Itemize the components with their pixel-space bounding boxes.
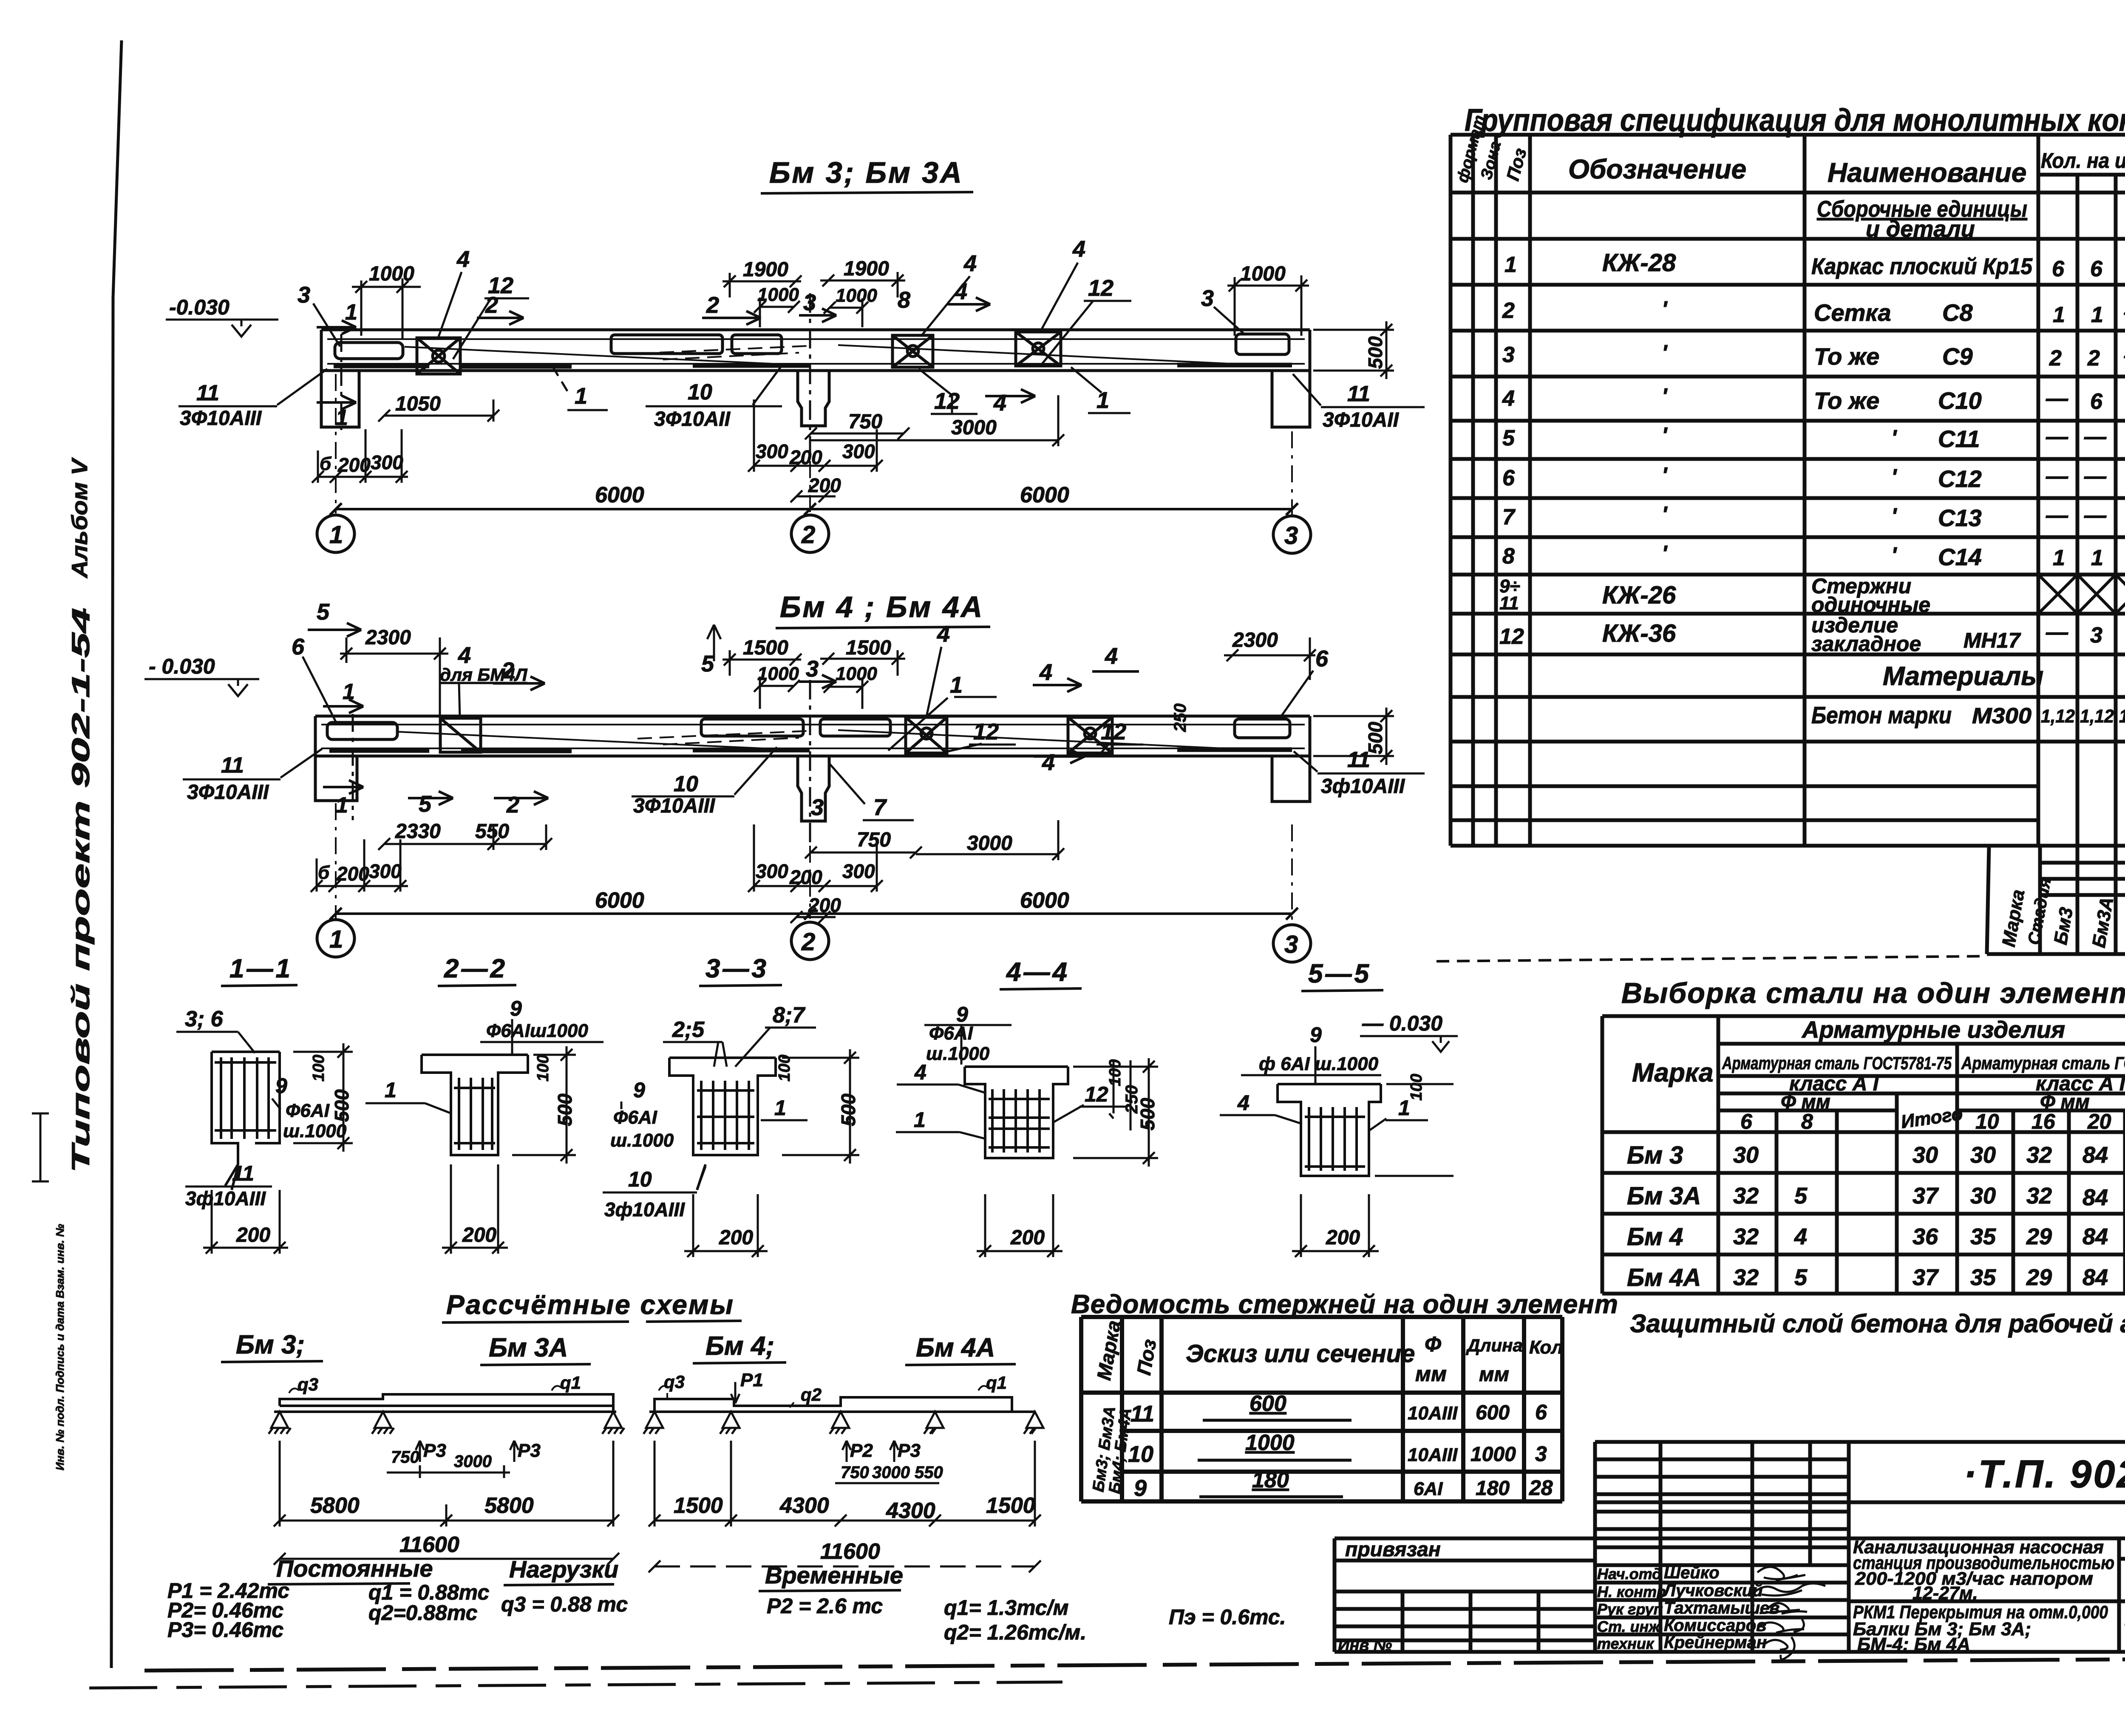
svg-text:q1= 1.3тс/м: q1= 1.3тс/м — [944, 1596, 1068, 1620]
svg-text:ш.1000: ш.1000 — [610, 1130, 674, 1151]
svg-text:ш.1000: ш.1000 — [926, 1043, 990, 1064]
svg-text:МН17: МН17 — [1963, 629, 2021, 652]
svg-text:6: 6 — [1740, 1110, 1753, 1133]
svg-text:6: 6 — [2090, 389, 2103, 414]
svg-text:500: 500 — [837, 1093, 859, 1126]
svg-text:550: 550 — [915, 1463, 943, 1482]
svg-text:—: — — [2046, 386, 2068, 411]
svg-text:С13: С13 — [1938, 504, 1982, 531]
svg-text:3000: 3000 — [951, 416, 997, 439]
svg-text:Арматурные изделия: Арматурные изделия — [1801, 1016, 2065, 1043]
svg-text:Марка: Марка — [1632, 1058, 1713, 1087]
svg-text:200: 200 — [808, 474, 841, 496]
svg-text:Зона: Зона — [1477, 139, 1504, 181]
svg-text:КЖ-36: КЖ-36 — [1602, 620, 1676, 647]
svg-text:Групповая спецификация для: Групповая спецификация для монолитных ко… — [1465, 102, 2125, 138]
svg-text:3; 6: 3; 6 — [185, 1007, 224, 1031]
svg-text:q2: q2 — [801, 1385, 822, 1405]
svg-text:9: 9 — [1310, 1023, 1322, 1047]
svg-text:4: 4 — [1105, 643, 1118, 669]
svg-text:б: б — [320, 453, 332, 474]
svg-text:32: 32 — [1733, 1183, 1759, 1209]
svg-text:2: 2 — [801, 928, 815, 956]
svg-text:4: 4 — [458, 643, 471, 668]
svg-text:q2=0.88тс: q2=0.88тс — [368, 1601, 478, 1625]
svg-text:1: 1 — [914, 1108, 926, 1132]
svg-text:Рассчётные схемы: Рассчётные схемы — [446, 1289, 734, 1320]
svg-text:500: 500 — [331, 1089, 353, 1122]
svg-text:P3: P3 — [898, 1440, 921, 1461]
svg-text:1: 1 — [336, 405, 348, 430]
svg-text:180: 180 — [1252, 1468, 1289, 1492]
svg-text:2330: 2330 — [395, 820, 441, 843]
svg-text:6: 6 — [1502, 466, 1515, 490]
svg-text:1: 1 — [1504, 252, 1517, 277]
svg-text:': ' — [1891, 543, 1897, 568]
svg-text:6000: 6000 — [1020, 483, 1069, 507]
svg-text:200: 200 — [719, 1226, 753, 1249]
svg-text:11: 11 — [196, 381, 219, 405]
svg-text:1500: 1500 — [846, 637, 891, 659]
svg-text:Крейнерман: Крейнерман — [1664, 1633, 1767, 1652]
svg-text:9: 9 — [1134, 1475, 1147, 1501]
svg-text:4: 4 — [937, 621, 950, 647]
svg-text:3Ф10АII: 3Ф10АII — [654, 408, 731, 430]
svg-text:4: 4 — [456, 246, 470, 272]
svg-text:Бм3А: Бм3А — [2088, 895, 2118, 949]
svg-text:Выборка стали на один элем: Выборка стали на один элемент, кг — [1621, 977, 2125, 1009]
svg-text:Бм 4А: Бм 4А — [1627, 1264, 1701, 1291]
svg-text:1900: 1900 — [844, 258, 889, 280]
svg-text:10: 10 — [688, 380, 712, 405]
svg-text:37: 37 — [1912, 1183, 1939, 1209]
svg-text:Бм 3; Бм 3А: Бм 3; Бм 3А — [769, 156, 963, 189]
svg-text:P3: P3 — [518, 1440, 541, 1461]
svg-text:': ' — [1891, 465, 1897, 490]
svg-text:С12: С12 — [1938, 465, 1982, 492]
svg-text:5: 5 — [1794, 1265, 1808, 1290]
svg-text:-0.030: -0.030 — [169, 295, 229, 319]
svg-text:Ф6АIш1000: Ф6АIш1000 — [486, 1020, 588, 1041]
svg-text:1: 1 — [2091, 546, 2103, 570]
svg-text:2: 2 — [1502, 298, 1515, 323]
svg-text:1: 1 — [2053, 546, 2065, 570]
svg-text:9: 9 — [633, 1078, 645, 1102]
svg-text:3: 3 — [1502, 343, 1515, 367]
svg-text:q3 = 0.88 тс: q3 = 0.88 тс — [501, 1592, 628, 1616]
svg-text:1: 1 — [575, 383, 587, 409]
svg-text:Ф6АI: Ф6АI — [286, 1100, 330, 1121]
svg-text:10АIII: 10АIII — [1408, 1444, 1458, 1465]
svg-text:1500: 1500 — [743, 637, 788, 659]
svg-text:БМ-4; Бм 4А: БМ-4; Бм 4А — [1857, 1634, 1970, 1655]
svg-text:Длина: Длина — [1466, 1335, 1523, 1355]
svg-text:q2= 1.26тс/м.: q2= 1.26тс/м. — [944, 1620, 1086, 1644]
svg-text:привязан: привязан — [1345, 1538, 1441, 1561]
svg-text:10: 10 — [674, 772, 698, 796]
svg-text:2—2: 2—2 — [444, 954, 507, 983]
svg-text:С14: С14 — [1938, 544, 1982, 570]
svg-text:—: — — [2046, 620, 2068, 645]
svg-text:30: 30 — [1733, 1142, 1759, 1168]
svg-text:Бм 4 ; Бм 4А: Бм 4 ; Бм 4А — [780, 590, 984, 623]
svg-text:КЖ-28: КЖ-28 — [1602, 249, 1676, 277]
svg-text:4: 4 — [963, 251, 977, 276]
svg-text:250: 250 — [1171, 703, 1190, 732]
svg-text:Р3= 0.46тс: Р3= 0.46тс — [167, 1618, 283, 1642]
svg-text:С9: С9 — [1942, 343, 1973, 370]
svg-text:300: 300 — [371, 451, 403, 473]
svg-text:3ф10АIII: 3ф10АIII — [185, 1187, 266, 1209]
svg-text:3: 3 — [1284, 522, 1298, 549]
svg-text:10АIII: 10АIII — [1408, 1403, 1458, 1424]
svg-text:1: 1 — [2053, 303, 2065, 327]
svg-text:550: 550 — [475, 820, 509, 843]
svg-text:1000: 1000 — [1240, 263, 1286, 285]
svg-text:3000: 3000 — [454, 1452, 492, 1471]
svg-text:750: 750 — [841, 1463, 869, 1482]
svg-text:Бм 3;: Бм 3; — [236, 1330, 305, 1359]
svg-text:32: 32 — [2026, 1183, 2052, 1209]
svg-text:11600: 11600 — [399, 1532, 459, 1557]
svg-text:1000: 1000 — [1470, 1443, 1516, 1466]
svg-text:Временные: Временные — [765, 1562, 903, 1589]
svg-text:1,12: 1,12 — [2080, 706, 2114, 727]
svg-text:300: 300 — [842, 860, 875, 882]
svg-text:3Ф10АIII: 3Ф10АIII — [180, 407, 262, 430]
svg-text:200: 200 — [1326, 1226, 1360, 1249]
svg-text:—: — — [2046, 425, 2068, 449]
svg-text:29: 29 — [2026, 1265, 2052, 1290]
svg-text:3Ф10АII: 3Ф10АII — [1323, 409, 1400, 431]
svg-text:Бм 3: Бм 3 — [1627, 1141, 1683, 1169]
svg-text:Бм 4А: Бм 4А — [916, 1333, 995, 1362]
svg-text:11: 11 — [232, 1161, 254, 1185]
svg-text:Комиссаров: Комиссаров — [1664, 1616, 1766, 1635]
svg-text:Марка: Марка — [1998, 888, 2029, 948]
svg-text:100: 100 — [1106, 1059, 1124, 1086]
svg-text:30: 30 — [1970, 1183, 1996, 1209]
svg-text:1500: 1500 — [986, 1493, 1035, 1518]
svg-text:Наименование: Наименование — [1827, 157, 2026, 188]
svg-text:Ст. инж: Ст. инж — [1597, 1618, 1661, 1635]
svg-text:Бетон марки: Бетон марки — [1811, 702, 1952, 728]
svg-text:4: 4 — [1072, 236, 1085, 262]
svg-text:1050: 1050 — [395, 393, 441, 415]
svg-text:4: 4 — [914, 1060, 926, 1084]
svg-text:2: 2 — [506, 792, 519, 818]
svg-text:28: 28 — [1529, 1476, 1553, 1500]
svg-text:3000: 3000 — [872, 1463, 910, 1482]
svg-text:10: 10 — [1128, 1441, 1153, 1467]
svg-text:4: 4 — [1039, 660, 1052, 685]
svg-text:12: 12 — [973, 719, 999, 745]
svg-text:Инв. № подл. Подпись и дата: Инв. № подл. Подпись и дата Взам. инв. № — [54, 1224, 66, 1470]
svg-text:84: 84 — [2082, 1224, 2108, 1249]
svg-text:3: 3 — [1201, 286, 1214, 311]
svg-text:': ' — [1662, 297, 1668, 322]
svg-text:1: 1 — [329, 926, 343, 953]
svg-text:35: 35 — [1970, 1265, 1996, 1290]
svg-text:5: 5 — [419, 791, 432, 817]
svg-text:Арматурная сталь ГОСТ 5.1457-7: Арматурная сталь ГОСТ 5.1457-72* — [1961, 1053, 2125, 1073]
svg-text:100: 100 — [310, 1055, 328, 1082]
svg-text:—: — — [2084, 503, 2107, 528]
svg-text:М300: М300 — [1972, 704, 2031, 728]
svg-text:6: 6 — [2052, 257, 2065, 281]
svg-text:1: 1 — [774, 1096, 786, 1120]
svg-text:Итого: Итого — [1900, 1103, 1964, 1133]
svg-text:1: 1 — [950, 672, 963, 698]
svg-text:1500: 1500 — [674, 1493, 723, 1518]
svg-text:4: 4 — [954, 279, 967, 304]
svg-text:Обозначение: Обозначение — [1568, 154, 1746, 184]
svg-text:Арматурная сталь ГОСТ5781-75: Арматурная сталь ГОСТ5781-75 — [1722, 1053, 1952, 1073]
svg-text:Поз: Поз — [1133, 1337, 1161, 1376]
svg-text:С8: С8 — [1942, 299, 1973, 326]
svg-text:2: 2 — [2087, 346, 2100, 371]
svg-text:Стадия: Стадия — [2025, 876, 2055, 946]
svg-text:КЖ-26: КЖ-26 — [1602, 581, 1676, 609]
svg-text:37: 37 — [1912, 1265, 1939, 1290]
svg-text:2: 2 — [706, 292, 719, 318]
svg-text:1: 1 — [385, 1078, 397, 1102]
svg-text:Инв №: Инв № — [1338, 1637, 1392, 1654]
svg-text:12: 12 — [1499, 624, 1524, 649]
svg-text:закладное: закладное — [1811, 632, 1921, 656]
svg-text:5—5: 5—5 — [1308, 959, 1371, 988]
svg-text:500: 500 — [1136, 1098, 1159, 1130]
svg-text:6000: 6000 — [595, 888, 644, 913]
svg-text:6: 6 — [2090, 257, 2103, 281]
svg-text:750: 750 — [857, 829, 891, 851]
svg-text:': ' — [1891, 504, 1897, 529]
svg-text:7: 7 — [873, 795, 887, 820]
svg-text:1000: 1000 — [836, 285, 877, 306]
svg-text:': ' — [1662, 541, 1668, 566]
svg-text:12: 12 — [1088, 275, 1113, 301]
svg-text:11: 11 — [1130, 1401, 1154, 1427]
svg-text:и детали: и детали — [1866, 216, 1975, 242]
svg-text:С10: С10 — [1938, 387, 1982, 414]
svg-text:500: 500 — [1364, 336, 1386, 369]
svg-text:300: 300 — [369, 860, 402, 882]
svg-text:4—4: 4—4 — [1006, 957, 1070, 987]
svg-text:11: 11 — [1499, 593, 1519, 614]
svg-text:4: 4 — [1502, 386, 1515, 411]
svg-text:3: 3 — [297, 282, 310, 308]
svg-text:5800: 5800 — [310, 1493, 360, 1518]
svg-text:2300: 2300 — [365, 626, 411, 649]
svg-text:Ведомость стержней на один: Ведомость стержней на один элемент — [1071, 1290, 1618, 1319]
svg-text:q3: q3 — [664, 1372, 685, 1392]
svg-text:2: 2 — [2049, 346, 2062, 371]
svg-text:Бм 3А: Бм 3А — [489, 1333, 568, 1362]
svg-text:100: 100 — [1408, 1074, 1425, 1101]
svg-text:P3: P3 — [423, 1440, 446, 1461]
svg-text:Н. контр: Н. контр — [1597, 1583, 1666, 1600]
svg-text:Лучковский: Лучковский — [1663, 1581, 1763, 1600]
svg-text:3: 3 — [1535, 1442, 1547, 1466]
svg-text:3000: 3000 — [967, 832, 1012, 855]
svg-text:8: 8 — [1502, 544, 1515, 569]
svg-text:2;5: 2;5 — [672, 1017, 705, 1042]
svg-text:84: 84 — [2082, 1265, 2108, 1290]
svg-text:Шейко: Шейко — [1664, 1563, 1720, 1582]
svg-text:4: 4 — [1794, 1224, 1807, 1249]
svg-text:Нагрузки: Нагрузки — [509, 1556, 618, 1583]
svg-text:1—1: 1—1 — [229, 954, 293, 983]
svg-text:8: 8 — [898, 287, 910, 313]
svg-text:3ф10АIII: 3ф10АIII — [1321, 775, 1405, 798]
svg-text:100: 100 — [534, 1055, 552, 1082]
svg-text:б: б — [318, 862, 330, 883]
svg-text:Бм 4;: Бм 4; — [705, 1331, 774, 1361]
svg-text:12: 12 — [1085, 1082, 1108, 1106]
svg-text:12: 12 — [1101, 719, 1126, 745]
svg-text:1: 1 — [2091, 303, 2103, 327]
svg-text:Рук груп: Рук груп — [1597, 1600, 1663, 1618]
svg-text:Каркас плоский Кр15: Каркас плоский Кр15 — [1811, 254, 2033, 279]
svg-text:—: — — [2084, 464, 2107, 489]
svg-text:8: 8 — [1801, 1110, 1813, 1133]
svg-text:': ' — [1662, 502, 1668, 527]
svg-text:То же: То же — [1814, 343, 1879, 370]
svg-text:—: — — [2084, 425, 2107, 449]
svg-text:9: 9 — [510, 997, 522, 1020]
svg-text:10: 10 — [628, 1167, 652, 1191]
svg-text:P1: P1 — [740, 1370, 763, 1390]
svg-text:ш.1000: ш.1000 — [283, 1121, 347, 1141]
svg-text:С11: С11 — [1938, 425, 1980, 452]
svg-text:Кол: Кол — [1529, 1337, 1563, 1358]
svg-text:Р2 = 2.6 тс: Р2 = 2.6 тс — [767, 1594, 883, 1618]
svg-text:6: 6 — [292, 634, 305, 660]
svg-text:11: 11 — [1347, 382, 1370, 406]
svg-text:': ' — [1891, 426, 1897, 450]
svg-text:— 0.030: — 0.030 — [1362, 1011, 1442, 1035]
svg-text:6000: 6000 — [595, 483, 644, 507]
svg-text:35: 35 — [1970, 1224, 1996, 1249]
svg-text:для БМ4Л: для БМ4Л — [440, 665, 528, 685]
svg-text:3: 3 — [811, 795, 824, 820]
svg-text:32: 32 — [1733, 1224, 1759, 1249]
svg-text:- 0.030: - 0.030 — [149, 654, 215, 678]
svg-text:1000: 1000 — [1245, 1430, 1295, 1455]
svg-text:4300: 4300 — [886, 1498, 935, 1523]
svg-text:P2: P2 — [850, 1440, 873, 1461]
svg-text:Типовой проект 902-1-54: Типовой проект 902-1-54 — [67, 608, 95, 1173]
svg-text:11600: 11600 — [820, 1539, 880, 1564]
svg-text:2: 2 — [501, 658, 514, 683]
svg-text:5800: 5800 — [484, 1493, 534, 1518]
svg-text:3: 3 — [806, 656, 819, 682]
svg-text:30: 30 — [1912, 1142, 1938, 1168]
svg-text:750: 750 — [848, 411, 882, 433]
svg-text:4: 4 — [1042, 750, 1055, 775]
svg-text:12-27м.: 12-27м. — [1912, 1583, 1978, 1603]
svg-text:Постоянные: Постоянные — [276, 1555, 433, 1582]
svg-text:мм: мм — [1479, 1363, 1509, 1386]
svg-text:2: 2 — [485, 292, 498, 318]
svg-text:Нач.отд: Нач.отд — [1597, 1565, 1661, 1583]
svg-text:1: 1 — [336, 793, 348, 818]
svg-text:3: 3 — [1284, 931, 1298, 958]
svg-text:Ф6АI: Ф6АI — [613, 1107, 657, 1128]
svg-text:q1: q1 — [560, 1373, 581, 1393]
svg-text:Сетка: Сетка — [1814, 299, 1891, 326]
svg-text:·Т.П. 902-1- -КЖ: ·Т.П. 902-1- -КЖ — [1963, 1453, 2125, 1496]
svg-text:200: 200 — [462, 1224, 496, 1246]
svg-text:4: 4 — [993, 390, 1006, 416]
svg-text:5: 5 — [1794, 1183, 1808, 1209]
svg-text:300: 300 — [756, 440, 788, 462]
svg-text:3: 3 — [2090, 623, 2102, 648]
svg-text:600: 600 — [1249, 1391, 1286, 1416]
svg-text:3Ф10АIII: 3Ф10АIII — [633, 795, 716, 817]
svg-text:Кол. на исполн.: Кол. на исполн. — [2041, 149, 2125, 173]
svg-text:Эскиз или сечение: Эскиз или сечение — [1186, 1340, 1415, 1368]
svg-text:500: 500 — [1364, 722, 1386, 754]
svg-text:6: 6 — [1535, 1400, 1547, 1424]
svg-text:—: — — [2046, 464, 2068, 489]
svg-text:84: 84 — [2082, 1185, 2108, 1210]
svg-text:3ф10АIII: 3ф10АIII — [604, 1198, 685, 1221]
svg-text:': ' — [1662, 423, 1668, 448]
svg-text:84: 84 — [2082, 1142, 2108, 1168]
svg-text:1: 1 — [329, 521, 343, 549]
svg-text:9: 9 — [275, 1074, 287, 1098]
svg-text:36: 36 — [1912, 1224, 1938, 1249]
svg-text:Поз: Поз — [1502, 146, 1530, 183]
svg-text:Бм 3А: Бм 3А — [1627, 1182, 1701, 1210]
svg-text:мм: мм — [1415, 1362, 1447, 1386]
svg-text:180: 180 — [1476, 1477, 1510, 1500]
svg-text:30: 30 — [1970, 1142, 1996, 1168]
svg-text:': ' — [1662, 463, 1668, 488]
svg-text:Защитный слой бетона для р: Защитный слой бетона для рабочей арматур… — [1630, 1309, 2125, 1338]
svg-text:3—3: 3—3 — [705, 954, 769, 983]
svg-text:500: 500 — [554, 1093, 576, 1126]
svg-text:100: 100 — [776, 1055, 793, 1082]
svg-text:2300: 2300 — [1232, 629, 1278, 651]
svg-text:': ' — [1662, 384, 1668, 409]
svg-text:6: 6 — [1315, 646, 1329, 671]
svg-text:Бм3: Бм3 — [2050, 906, 2077, 946]
svg-text:10: 10 — [1975, 1110, 1999, 1133]
svg-text:': ' — [1662, 341, 1668, 365]
svg-text:Тахтамышев: Тахтамышев — [1664, 1599, 1779, 1617]
svg-text:6000: 6000 — [1020, 888, 1069, 913]
svg-text:29: 29 — [2026, 1224, 2052, 1249]
svg-text:8;7: 8;7 — [773, 1003, 805, 1028]
svg-text:1,12: 1,12 — [2041, 706, 2075, 727]
svg-text:5: 5 — [1502, 426, 1515, 450]
svg-text:4: 4 — [1237, 1091, 1249, 1115]
svg-text:3Ф10АIII: 3Ф10АIII — [187, 781, 269, 804]
svg-text:Пэ = 0.6тс.: Пэ = 0.6тс. — [1169, 1605, 1286, 1629]
svg-text:1: 1 — [343, 680, 355, 704]
svg-text:1900: 1900 — [743, 258, 788, 281]
svg-text:300: 300 — [756, 860, 788, 882]
svg-text:q3: q3 — [297, 1374, 318, 1394]
svg-text:4300: 4300 — [779, 1493, 829, 1518]
svg-text:600: 600 — [1476, 1402, 1510, 1424]
svg-text:200: 200 — [236, 1224, 270, 1246]
svg-text:Бм 4: Бм 4 — [1627, 1223, 1683, 1251]
svg-text:750: 750 — [391, 1448, 419, 1467]
svg-text:ф 6АI ш.1000: ф 6АI ш.1000 — [1259, 1053, 1379, 1074]
